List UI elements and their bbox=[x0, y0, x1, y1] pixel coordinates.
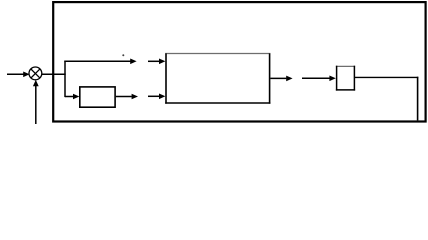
wire: top branch arrow bbox=[64, 59, 136, 65]
sensor block (small square) bbox=[336, 66, 355, 91]
wire: feedback line from bottom into summing junction bbox=[33, 80, 39, 124]
wire: sensor output to right then down to bottom edge bbox=[354, 77, 418, 121]
wire: bottom input arrow into plant block bbox=[148, 94, 165, 100]
wire: top input arrow into plant block bbox=[148, 59, 165, 65]
wire: summing junction output to branch point bbox=[42, 73, 66, 75]
wire: controller output arrow bbox=[116, 94, 138, 100]
stray dot bbox=[122, 54, 124, 56]
controller block (small box) bbox=[80, 87, 115, 107]
summing junction (circle with X) bbox=[29, 67, 42, 80]
outer system boundary box bbox=[53, 2, 425, 121]
plant block (large box) bbox=[165, 53, 270, 103]
wire: plant output arrow bbox=[270, 76, 292, 82]
wire: branch vertical bbox=[64, 61, 66, 97]
wire: reference input arrow into summing junction bbox=[7, 72, 30, 78]
wire: bottom branch arrow into controller block bbox=[65, 94, 79, 100]
wire: arrow into sensor block bbox=[302, 76, 336, 82]
